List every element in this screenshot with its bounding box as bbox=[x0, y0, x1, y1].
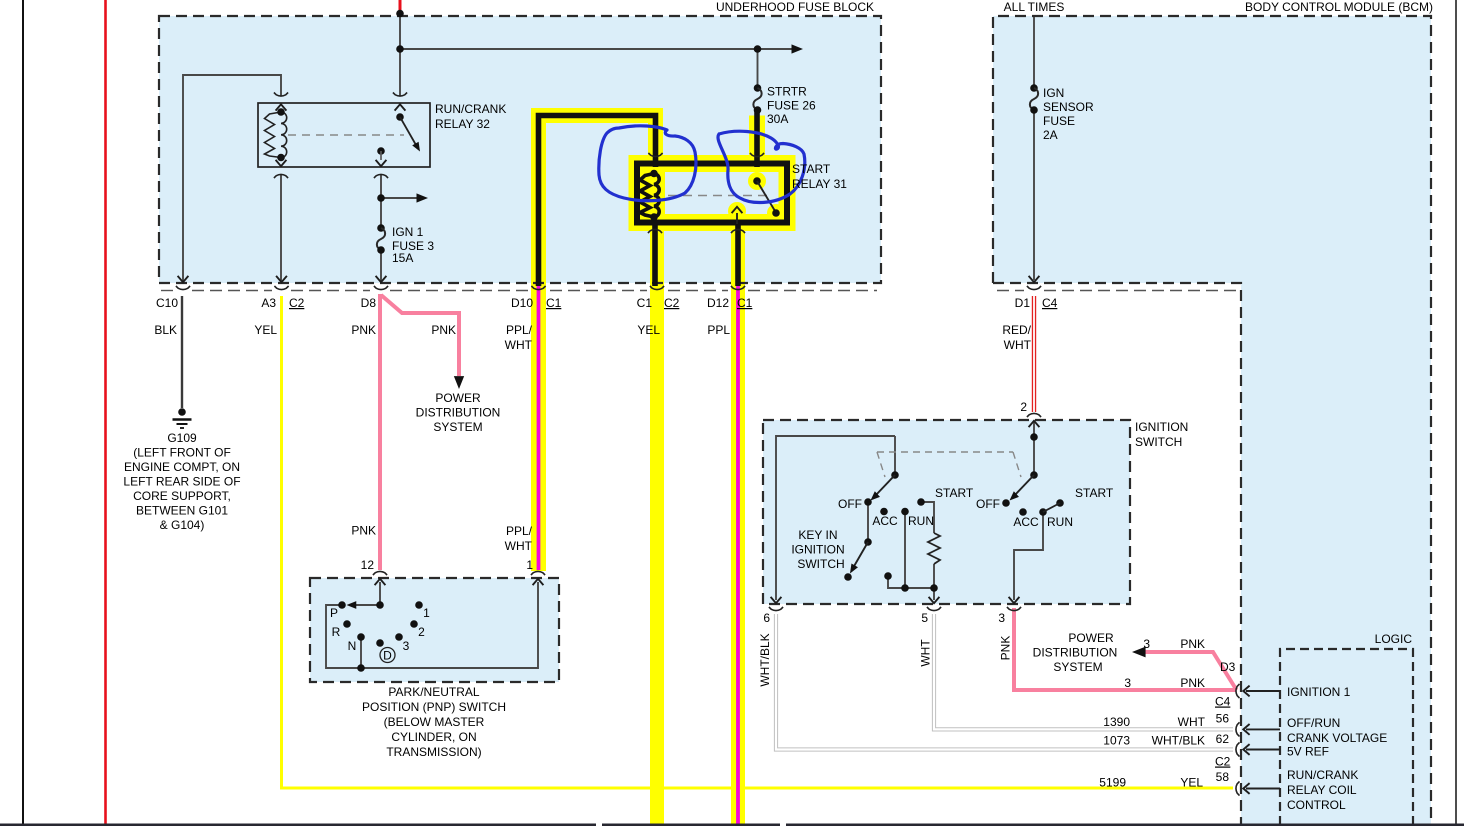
BCM LOGIC pin arrows and cups bbox=[1243, 686, 1249, 697]
wire YEL from A3/C2 down and across to BCM pin 58 (circuit 5199) bbox=[282, 296, 1234, 788]
svg-text:WHT: WHT bbox=[505, 539, 533, 553]
relay 32 branch arrow to right bbox=[377, 194, 385, 202]
red margin line bbox=[104, 0, 107, 826]
svg-text:C4: C4 bbox=[1042, 296, 1058, 310]
wire RUN contact down to pin5 bus bbox=[904, 512, 906, 589]
svg-text:PNK: PNK bbox=[999, 636, 1013, 661]
svg-text:PNK: PNK bbox=[1180, 637, 1205, 651]
IGNITION SWITCH box fill bbox=[763, 420, 1130, 604]
svg-text:5199: 5199 bbox=[1099, 776, 1126, 790]
wire RUN/CRANK relay coil bottom to A3 bbox=[280, 174, 282, 281]
wire START contact through resistor to pin5 bbox=[921, 502, 934, 533]
svg-text:12: 12 bbox=[361, 558, 375, 572]
wire thick: D10 up, across, down to START RELAY coil bbox=[539, 116, 656, 287]
svg-text:2: 2 bbox=[418, 625, 425, 639]
start relay switch arm bbox=[757, 181, 775, 211]
right page border line bbox=[1455, 0, 1457, 826]
wire OFF contact to key-in switch bbox=[867, 502, 869, 542]
yellow highlighter band STRTR fuse to START RELAY switch pin bbox=[749, 116, 765, 164]
svg-text:BETWEEN G101: BETWEEN G101 bbox=[136, 504, 228, 518]
svg-text:RUN/CRANK: RUN/CRANK bbox=[1287, 768, 1358, 782]
svg-text:CONTROL: CONTROL bbox=[1287, 798, 1346, 812]
svg-text:ACC: ACC bbox=[872, 514, 898, 528]
svg-text:YEL: YEL bbox=[637, 323, 660, 337]
relay 32 switch arm bbox=[400, 117, 416, 145]
svg-text:RUN: RUN bbox=[908, 514, 934, 528]
key-in switch arm bbox=[864, 538, 872, 546]
svg-text:POSITION (PNP) SWITCH: POSITION (PNP) SWITCH bbox=[362, 700, 506, 714]
ignition switch left contacts OFF ACC RUN START bbox=[864, 498, 872, 506]
yellow highlighter band C1/C2 YEL wire column to bottom bbox=[650, 226, 664, 826]
svg-text:ALL TIMES: ALL TIMES bbox=[1004, 0, 1065, 14]
svg-text:P: P bbox=[330, 606, 338, 620]
svg-text:RELAY 32: RELAY 32 bbox=[435, 117, 490, 131]
svg-text:6: 6 bbox=[763, 611, 770, 625]
ignition switch bottom pin arrows and cups bbox=[771, 597, 782, 603]
wire BCM pin 58 arrow lead bbox=[1246, 788, 1280, 790]
svg-text:STRTR: STRTR bbox=[767, 85, 807, 99]
start relay internal dashed link bbox=[668, 195, 770, 197]
PNP contacts P R N D 3 2 1 bbox=[338, 601, 346, 609]
svg-text:62: 62 bbox=[1216, 732, 1230, 746]
BODY CONTROL MODULE (BCM) box fill bbox=[993, 16, 1431, 825]
svg-text:START: START bbox=[1075, 486, 1114, 500]
svg-text:START: START bbox=[935, 486, 974, 500]
wire PNK D8 down to PNP pin 12 bbox=[378, 294, 382, 570]
svg-text:WHT: WHT bbox=[1004, 338, 1032, 352]
svg-text:WHT: WHT bbox=[919, 639, 933, 667]
UNDERHOOD FUSE BLOCK dashed border bbox=[159, 16, 881, 283]
svg-text:FUSE 26: FUSE 26 bbox=[767, 99, 816, 113]
arrow battery feed continues right bbox=[792, 44, 804, 53]
svg-text:N: N bbox=[348, 639, 357, 653]
svg-text:RUN: RUN bbox=[1047, 515, 1073, 529]
wire RED/WHT D1 to ignition switch pin 2 bbox=[1032, 296, 1036, 412]
svg-text:C10: C10 bbox=[156, 296, 178, 310]
wire BCM pin IGNITION 1 arrow lead bbox=[1246, 690, 1280, 692]
junction STRTR fuse tap bbox=[754, 45, 762, 53]
bottom section line bbox=[0, 823, 1464, 826]
svg-text:DISTRIBUTION: DISTRIBUTION bbox=[416, 406, 501, 420]
svg-text:(BELOW MASTER: (BELOW MASTER bbox=[384, 715, 485, 729]
svg-text:UNDERHOOD FUSE BLOCK: UNDERHOOD FUSE BLOCK bbox=[716, 0, 874, 14]
svg-text:SENSOR: SENSOR bbox=[1043, 100, 1094, 114]
PNP SWITCH dashed border bbox=[310, 578, 559, 682]
svg-text:START: START bbox=[792, 162, 831, 176]
svg-text:BODY CONTROL MODULE (BCM): BODY CONTROL MODULE (BCM) bbox=[1245, 0, 1433, 14]
relay 32 switch output contact bbox=[377, 147, 385, 155]
yellow highlighter band over D10 PPL/WHT wire up through elbow to START RELAY coil bbox=[539, 116, 656, 572]
relay RUN/CRANK RELAY 32 box bbox=[258, 103, 430, 167]
svg-text:3: 3 bbox=[1124, 676, 1131, 690]
svg-text:5: 5 bbox=[921, 611, 928, 625]
UNDERHOOD FUSE BLOCK box fill bbox=[159, 16, 881, 283]
wire PNK from D3 junction to power distribution system bbox=[1140, 652, 1237, 690]
svg-text:C1: C1 bbox=[737, 296, 753, 310]
svg-text:3: 3 bbox=[998, 611, 1005, 625]
connector cups C10 A3 D8 D10 C1 D12 D1 bbox=[176, 286, 190, 290]
relay 32 switch pivot bbox=[396, 113, 404, 121]
ignition switch right arm bbox=[1014, 475, 1034, 496]
relay 32 internal dashed link bbox=[288, 134, 404, 136]
fuse block connector-face dashed line bbox=[161, 290, 877, 292]
start relay coil (thick) bbox=[640, 174, 659, 218]
svg-text:POWER: POWER bbox=[435, 391, 481, 405]
svg-text:TRANSMISSION): TRANSMISSION) bbox=[386, 745, 481, 759]
svg-text:30A: 30A bbox=[767, 112, 788, 126]
circle around D bbox=[380, 648, 395, 663]
resistor in ignition switch bbox=[928, 533, 940, 564]
svg-text:C4: C4 bbox=[1215, 695, 1231, 709]
svg-text:SWITCH: SWITCH bbox=[1135, 435, 1182, 449]
svg-text:G109: G109 bbox=[167, 431, 197, 445]
svg-text:IGN: IGN bbox=[1043, 86, 1064, 100]
wire ignition switch pin2 to left contact set feed bbox=[776, 436, 895, 600]
svg-text:YEL: YEL bbox=[254, 323, 277, 337]
yellow highlighter band D12 PPL wire column to bottom bbox=[731, 226, 745, 826]
svg-text:PPL: PPL bbox=[707, 323, 730, 337]
svg-text:C2: C2 bbox=[1215, 755, 1231, 769]
fuse IGN SENSOR FUSE 2A bbox=[1030, 84, 1038, 92]
yellow highlighter glow around START RELAY 31 border bbox=[637, 164, 787, 223]
wire PNK branch to power distribution arrow bbox=[381, 295, 459, 376]
svg-text:CYLINDER, ON: CYLINDER, ON bbox=[391, 730, 476, 744]
wire STRTR fuse top lead bbox=[757, 49, 759, 88]
svg-text:1: 1 bbox=[526, 558, 533, 572]
wire right RUN contact to pin3 bbox=[1014, 512, 1043, 600]
wire BCM ALL TIMES feed to IGN SENSOR fuse bbox=[1033, 17, 1035, 88]
BCM dashed border bbox=[993, 16, 1431, 825]
wire PPL core D12 down off page bbox=[736, 285, 740, 826]
svg-text:D8: D8 bbox=[361, 296, 377, 310]
wire PNP P loop to pin1 bbox=[326, 582, 538, 668]
svg-text:1073: 1073 bbox=[1103, 734, 1130, 748]
relay 32 coil bbox=[265, 112, 287, 158]
svg-text:PPL/: PPL/ bbox=[506, 323, 533, 337]
svg-text:CRANK VOLTAGE: CRANK VOLTAGE bbox=[1287, 731, 1387, 745]
svg-text:OFF: OFF bbox=[838, 497, 862, 511]
start relay switch pivot bbox=[753, 177, 761, 185]
wire IGN SENSOR fuse to D1 bbox=[1033, 110, 1035, 280]
svg-text:PNK: PNK bbox=[431, 323, 456, 337]
svg-text:CORE SUPPORT,: CORE SUPPORT, bbox=[133, 489, 231, 503]
BCM connector-face dashed line bbox=[997, 290, 1238, 292]
svg-text:D3: D3 bbox=[1220, 660, 1236, 674]
svg-text:WHT/BLK: WHT/BLK bbox=[758, 633, 772, 686]
wire thick: START RELAY coil out to C1 bbox=[652, 221, 658, 286]
blue pen loop around START RELAY switch bbox=[718, 131, 805, 202]
svg-text:ENGINE COMPT, ON: ENGINE COMPT, ON bbox=[124, 460, 240, 474]
svg-text:SWITCH: SWITCH bbox=[797, 557, 844, 571]
svg-text:BLK: BLK bbox=[154, 323, 177, 337]
svg-text:LOGIC: LOGIC bbox=[1375, 632, 1413, 646]
svg-text:DISTRIBUTION: DISTRIBUTION bbox=[1033, 646, 1118, 660]
svg-text:OFF: OFF bbox=[976, 497, 1000, 511]
svg-text:1390: 1390 bbox=[1103, 715, 1130, 729]
svg-text:C1: C1 bbox=[546, 296, 562, 310]
ground G109 bbox=[178, 408, 186, 416]
svg-text:1: 1 bbox=[423, 606, 430, 620]
svg-text:56: 56 bbox=[1216, 712, 1230, 726]
arrow POWER DISTRIBUTION SYSTEM (left) bbox=[1132, 647, 1146, 658]
svg-text:POWER: POWER bbox=[1068, 631, 1114, 645]
wire PNP junction arrow to P contact bbox=[350, 604, 380, 606]
svg-text:ACC: ACC bbox=[1013, 515, 1039, 529]
wire branch across top of fuse block to STRTR fuse bbox=[400, 48, 795, 50]
wire RUN/CRANK relay switch output to IGN1 fuse and D8 bbox=[380, 174, 382, 228]
wire WHT/BLK circuit 1073 pin6 to BCM pin 62 bbox=[776, 614, 1233, 750]
wire thick: START RELAY switch out to D12 bbox=[735, 221, 741, 286]
svg-text:RELAY 31: RELAY 31 bbox=[792, 177, 847, 191]
svg-text:C1: C1 bbox=[637, 296, 653, 310]
wire thick: STRTR fuse to START RELAY switch bbox=[754, 110, 760, 167]
fuse IGN 1 FUSE 3 15A bbox=[377, 224, 385, 232]
wire PNK ignition switch pin3 to BCM D3 junction bbox=[1014, 608, 1237, 690]
svg-text:& G104): & G104) bbox=[160, 518, 205, 532]
svg-text:LEFT REAR SIDE OF: LEFT REAR SIDE OF bbox=[123, 475, 240, 489]
wire battery feed red stub at top bbox=[399, 0, 402, 11]
wire BCM pin 56 arrow lead bbox=[1246, 728, 1280, 730]
mechanical linkage dashed bbox=[877, 452, 1021, 477]
svg-text:WHT/BLK: WHT/BLK bbox=[1152, 734, 1205, 748]
start relay pin cups bbox=[648, 153, 662, 157]
left page border line bbox=[22, 0, 24, 826]
junction battery feed at top bbox=[396, 10, 404, 18]
PNP pin 12 and pin 1 cups and arrows bbox=[373, 571, 387, 575]
svg-text:OFF/RUN: OFF/RUN bbox=[1287, 716, 1340, 730]
wire PPL/WHT core D10 to PNP pin 1 bbox=[537, 285, 541, 570]
PNP junction and arrow to P bbox=[376, 601, 384, 609]
ignition switch left pivot and arm bbox=[891, 471, 899, 479]
wire BCM pin 62 arrow lead bbox=[1246, 749, 1280, 751]
svg-text:2A: 2A bbox=[1043, 128, 1058, 142]
wire battery feed down into fuse block at top bbox=[399, 14, 401, 97]
svg-text:RELAY COIL: RELAY COIL bbox=[1287, 783, 1357, 797]
svg-text:3: 3 bbox=[403, 639, 410, 653]
yellow highlighter glow behind START RELAY coil bbox=[638, 169, 665, 221]
svg-text:PPL/: PPL/ bbox=[506, 524, 533, 538]
relay 32 pin arrows and cups bbox=[276, 104, 287, 110]
fuse block bottom connector arrows bbox=[178, 276, 189, 282]
svg-text:58: 58 bbox=[1216, 770, 1230, 784]
svg-text:(LEFT FRONT OF: (LEFT FRONT OF bbox=[133, 446, 231, 460]
wire ignition switch right pivot feed bbox=[1033, 421, 1035, 475]
IGNITION SWITCH dashed border bbox=[763, 420, 1130, 604]
yellow halo behind START RELAY switch contacts bbox=[748, 172, 766, 190]
svg-text:IGN 1: IGN 1 bbox=[392, 225, 424, 239]
PNP SWITCH box fill bbox=[310, 578, 559, 682]
svg-text:FUSE: FUSE bbox=[1043, 114, 1075, 128]
wire pin5 bottom bus bbox=[888, 576, 934, 600]
svg-text:WHT: WHT bbox=[1178, 715, 1206, 729]
wire G109 ground lead bbox=[181, 296, 183, 408]
ignition switch pin 2 entry bbox=[1027, 413, 1041, 417]
svg-text:PNK: PNK bbox=[351, 323, 376, 337]
svg-text:IGNITION: IGNITION bbox=[791, 543, 844, 557]
svg-text:D10: D10 bbox=[511, 296, 533, 310]
bus junction dots bbox=[884, 572, 892, 580]
svg-text:D: D bbox=[383, 649, 392, 663]
svg-text:D12: D12 bbox=[707, 296, 729, 310]
arrow POWER DISTRIBUTION SYSTEM (down) bbox=[454, 376, 464, 389]
relay START RELAY 31 box (highlighted) bbox=[637, 164, 787, 223]
svg-text:PARK/NEUTRAL: PARK/NEUTRAL bbox=[388, 685, 479, 699]
svg-text:15A: 15A bbox=[392, 251, 413, 265]
fuse STRTR FUSE 26 30A bbox=[754, 84, 762, 92]
ignition switch right contacts OFF ACC RUN START bbox=[1002, 499, 1010, 507]
svg-text:WHT: WHT bbox=[505, 338, 533, 352]
svg-text:YEL: YEL bbox=[1180, 776, 1203, 790]
svg-text:2: 2 bbox=[1020, 400, 1027, 414]
svg-text:D1: D1 bbox=[1015, 296, 1031, 310]
svg-text:A3: A3 bbox=[261, 296, 276, 310]
wire WHT circuit 1390 pin5 to BCM pin 56 bbox=[934, 614, 1233, 729]
svg-text:SYSTEM: SYSTEM bbox=[1053, 660, 1102, 674]
svg-text:RED/: RED/ bbox=[1002, 323, 1031, 337]
svg-text:PNK: PNK bbox=[351, 524, 376, 538]
svg-text:3: 3 bbox=[1143, 637, 1150, 651]
svg-text:PNK: PNK bbox=[1180, 676, 1205, 690]
svg-text:IGNITION: IGNITION bbox=[1135, 420, 1188, 434]
svg-text:C2: C2 bbox=[289, 296, 305, 310]
svg-text:RUN/CRANK: RUN/CRANK bbox=[435, 102, 506, 116]
svg-text:SYSTEM: SYSTEM bbox=[433, 420, 482, 434]
wire PNP pin12 stub bbox=[379, 582, 381, 605]
wire C10 BLK feed across to RUN/CRANK relay coil bbox=[183, 75, 281, 281]
start relay output contact arrow bbox=[736, 213, 738, 224]
blue pen loop around START RELAY coil bbox=[599, 126, 696, 201]
svg-text:C2: C2 bbox=[664, 296, 680, 310]
svg-text:IGNITION 1: IGNITION 1 bbox=[1287, 685, 1351, 699]
LOGIC dashed border bbox=[1280, 649, 1413, 825]
wire PNP N contact to bus bbox=[360, 637, 362, 668]
svg-text:KEY IN: KEY IN bbox=[798, 528, 837, 542]
svg-text:R: R bbox=[332, 625, 341, 639]
svg-text:5V REF: 5V REF bbox=[1287, 745, 1329, 759]
